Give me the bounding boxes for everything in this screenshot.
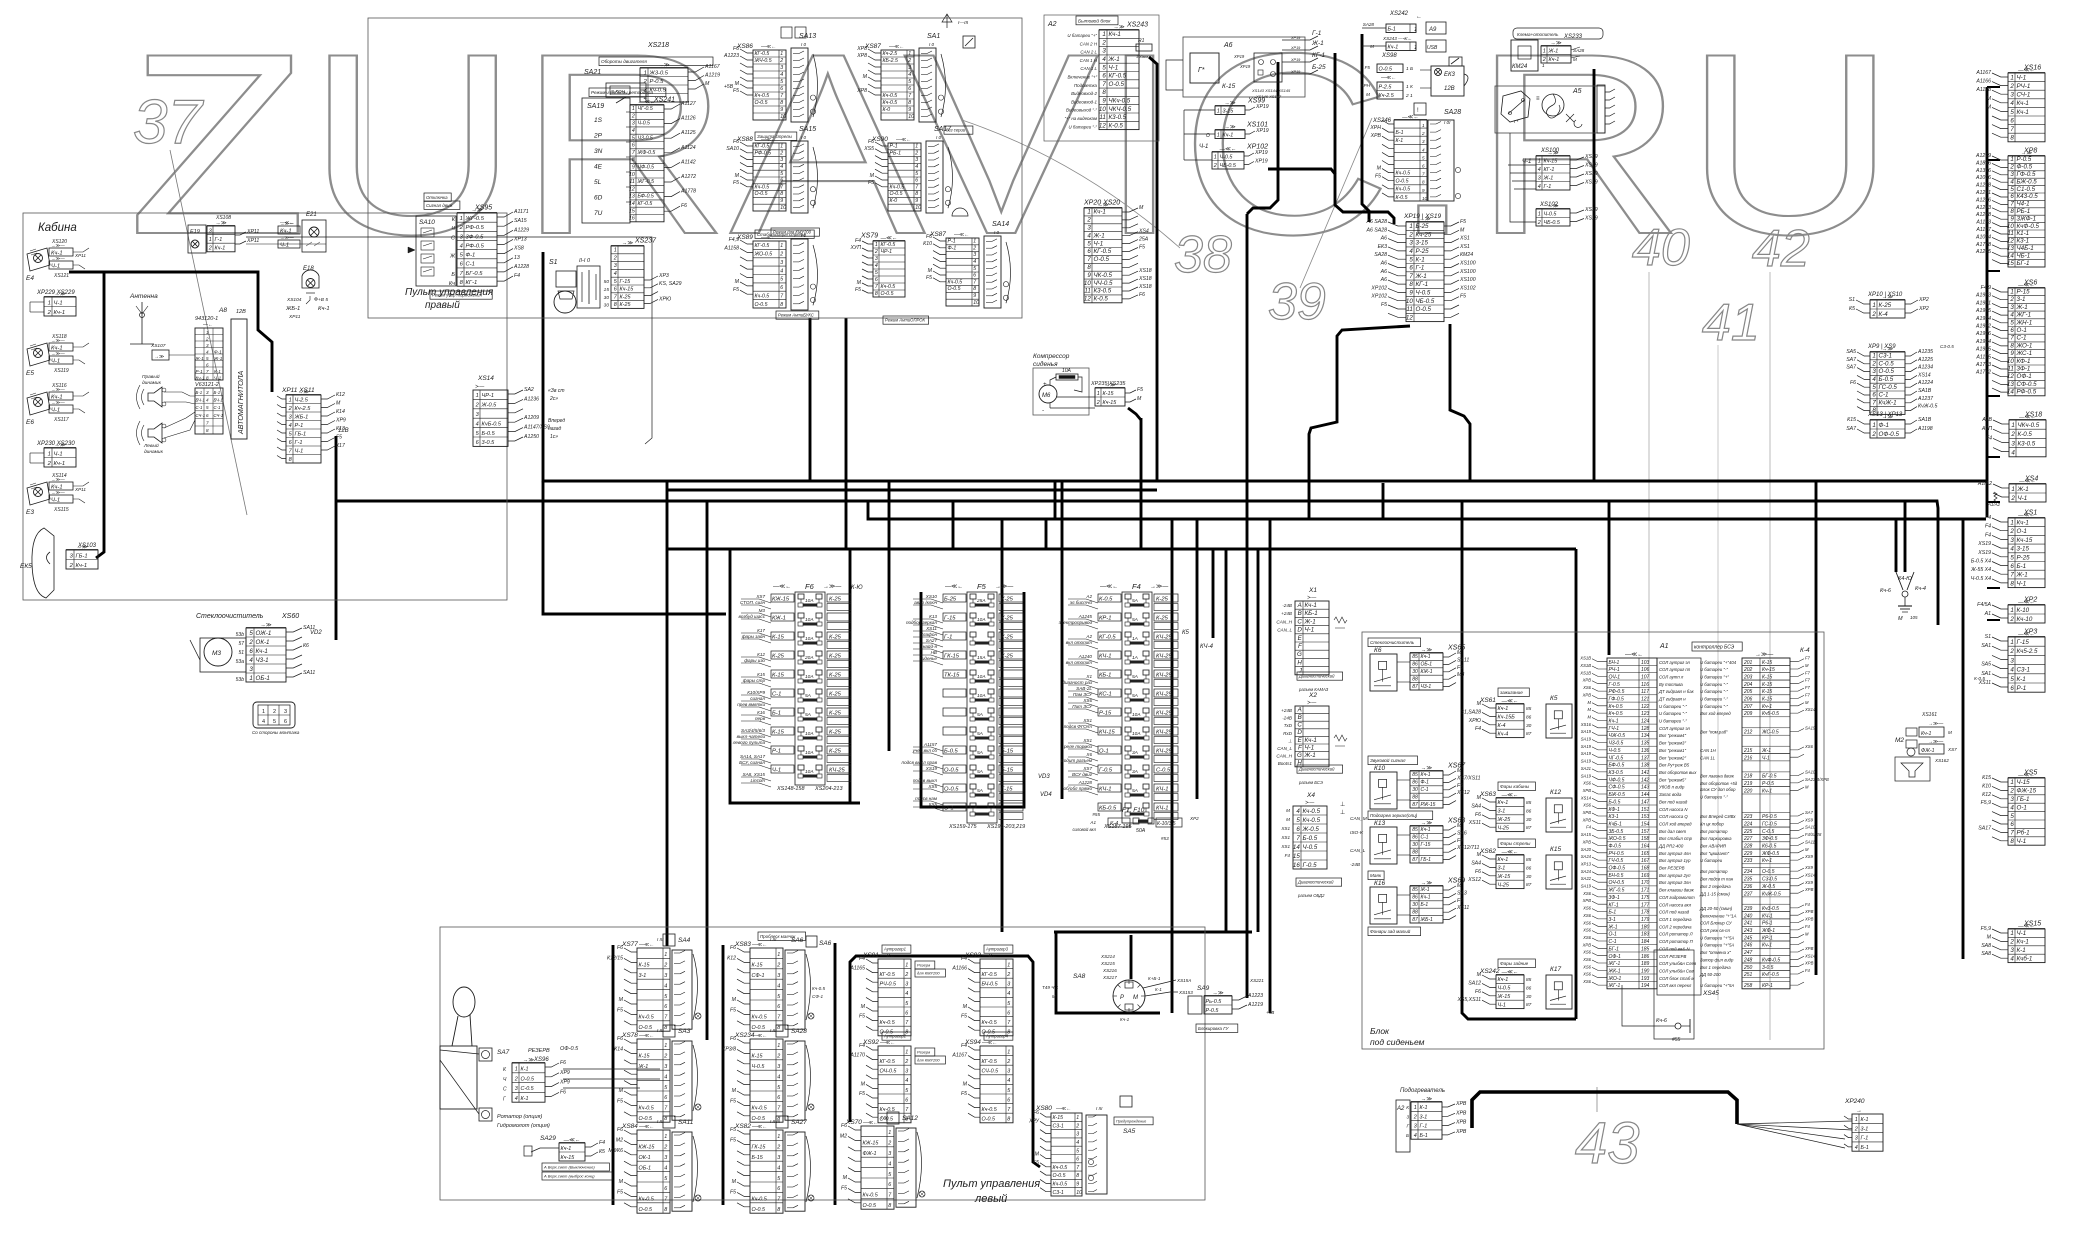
- svg-text:XS77: XS77: [621, 941, 638, 948]
- svg-text:CAN_H: CAN_H: [1276, 754, 1292, 759]
- svg-text:3: 3: [2010, 171, 2014, 178]
- svg-text:ХS19: ХS19: [1584, 180, 1598, 186]
- svg-text:правый: правый: [425, 300, 460, 311]
- svg-text:→≫—: →≫—: [995, 584, 1013, 590]
- svg-text:А1157: А1157: [923, 742, 937, 747]
- svg-text:9: 9: [908, 107, 911, 113]
- svg-text:КГ-1: КГ-1: [1312, 52, 1326, 59]
- svg-text:9: 9: [780, 107, 783, 113]
- svg-text:3-15: 3-15: [2017, 546, 2030, 553]
- svg-text:Кч-0.5: Кч-0.5: [1396, 187, 1411, 193]
- svg-text:F6: F6: [841, 1123, 847, 1129]
- svg-text:87: 87: [1526, 731, 1532, 737]
- svg-text:XS61: XS61: [1479, 697, 1496, 704]
- svg-text:4: 4: [2010, 955, 2014, 962]
- svg-text:ХР2: ХР2: [1918, 297, 1929, 303]
- svg-text:F4: F4: [1586, 825, 1592, 830]
- svg-text:Кч-0.5: Кч-0.5: [752, 1106, 768, 1112]
- svg-text:Кч-1: Кч-1: [1109, 31, 1121, 38]
- svg-text:XS243 —≪←: XS243 —≪←: [1382, 36, 1412, 41]
- svg-text:Вкл 2 передача: Вкл 2 передача: [1700, 884, 1731, 889]
- svg-text:авар /ключ: авар /ключ: [914, 600, 938, 605]
- svg-text:КГ-0.5: КГ-0.5: [755, 243, 770, 249]
- svg-text:30: 30: [604, 303, 610, 309]
- svg-text:КГ-0.5: КГ-0.5: [1094, 248, 1112, 255]
- svg-text:3: 3: [888, 1151, 891, 1157]
- svg-text:Кч-1: Кч-1: [2017, 520, 2029, 527]
- svg-text:Ч-25: Ч-25: [1498, 882, 1510, 888]
- svg-text:2: 2: [1537, 220, 1541, 226]
- svg-text:Кч-0.5: Кч-0.5: [812, 986, 825, 991]
- svg-text:Кч-1: Кч-1: [2017, 939, 2029, 946]
- svg-text:К12: К12: [1550, 789, 1561, 796]
- svg-text:К10: К10: [1982, 783, 1991, 789]
- svg-text:XS19: XS19: [1977, 541, 1991, 547]
- svg-text:ЖО-1: ЖО-1: [1608, 976, 1622, 982]
- svg-text:178: 178: [1641, 910, 1650, 916]
- svg-text:ЖС-0.5: ЖС-0.5: [1761, 730, 1779, 736]
- svg-text:3-0.5: 3-0.5: [482, 440, 496, 446]
- svg-text:7: 7: [1087, 256, 1091, 263]
- svg-text:8: 8: [206, 428, 209, 433]
- svg-text:ЧФ-0.5: ЧФ-0.5: [638, 165, 655, 171]
- svg-text:Аутригер4: Аутригер4: [985, 1034, 1009, 1039]
- svg-text:О-1: О-1: [2017, 327, 2027, 334]
- svg-text:А6: А6: [1380, 261, 1387, 267]
- svg-text:XS104: XS104: [286, 297, 302, 303]
- svg-text:3: 3: [2010, 947, 2014, 954]
- svg-text:F6: F6: [733, 46, 739, 52]
- svg-text:С: С: [451, 235, 455, 241]
- svg-text:11: 11: [1406, 306, 1412, 313]
- svg-text:147: 147: [1641, 799, 1650, 805]
- svg-text:1: 1: [1542, 63, 1545, 68]
- svg-text:Кч-0.5: Кч-0.5: [880, 1107, 896, 1113]
- svg-text:F5: F5: [1381, 302, 1387, 308]
- svg-text:А2: А2: [1047, 21, 1057, 28]
- svg-text:РФ-0.5: РФ-0.5: [2017, 389, 2037, 396]
- svg-text:I 0: I 0: [801, 42, 807, 47]
- svg-text:С3-1: С3-1: [1879, 353, 1892, 360]
- svg-text:А6: А6: [1380, 236, 1387, 242]
- svg-text:КГ-1: КГ-1: [466, 280, 478, 286]
- svg-text:165: 165: [1641, 851, 1650, 857]
- svg-text:Блок: Блок: [1370, 1026, 1390, 1036]
- svg-text:Ч-1: Ч-1: [1522, 159, 1531, 165]
- svg-text:6: 6: [664, 1186, 667, 1192]
- svg-text:РФ-0.5: РФ-0.5: [466, 225, 485, 231]
- svg-text:Кч-1: Кч-1: [54, 310, 66, 316]
- svg-text:202: 202: [1743, 667, 1753, 673]
- svg-text:4: 4: [289, 423, 292, 429]
- svg-text:ХS19: ХS19: [1584, 171, 1598, 177]
- svg-text:5А: 5А: [977, 788, 983, 794]
- svg-text:XS100: XS100: [1459, 269, 1476, 275]
- svg-text:F6: F6: [617, 1127, 623, 1133]
- svg-text:3: 3: [875, 256, 878, 262]
- svg-text:А1218: А1218: [1975, 183, 1991, 189]
- svg-text:9: 9: [1422, 188, 1425, 193]
- svg-text:К10: К10: [923, 241, 932, 247]
- svg-text:3: 3: [2010, 537, 2014, 544]
- svg-text:ХS5: ХS5: [863, 146, 874, 152]
- svg-text:ХS12: ХS12: [1456, 790, 1470, 796]
- svg-text:СОЛ 1 передача: СОЛ 1 передача: [1659, 917, 1692, 922]
- svg-text:3-1: 3-1: [1498, 809, 1506, 815]
- svg-text:Кч-1: Кч-1: [1762, 858, 1772, 864]
- svg-text:фары изо: фары изо: [744, 658, 765, 663]
- svg-text:Вкл РЕЗЕРВ: Вкл РЕЗЕРВ: [1659, 866, 1685, 871]
- svg-text:SA20: SA20: [1581, 847, 1592, 852]
- svg-text:F6: F6: [560, 1060, 566, 1066]
- svg-text:СОЛ аутп л: СОЛ аутп л: [1659, 675, 1684, 680]
- svg-text:М: М: [1460, 227, 1465, 233]
- svg-text:КР-1: КР-1: [1762, 935, 1773, 941]
- svg-text:10: 10: [1099, 106, 1106, 113]
- svg-text:Кч-0.5: Кч-0.5: [1609, 711, 1623, 717]
- svg-text:ХРЮ: ХРЮ: [1468, 718, 1482, 724]
- svg-text:Ч-0.5: Ч-0.5: [1609, 748, 1621, 754]
- svg-text:О-0.5: О-0.5: [1094, 256, 1110, 263]
- svg-text:4: 4: [2010, 312, 2014, 319]
- svg-text:ХS6: ХS6: [1082, 698, 1092, 703]
- svg-text:F7, F10: F7, F10: [1122, 807, 1145, 814]
- svg-text:О-0.5: О-0.5: [521, 1076, 535, 1082]
- svg-text:подсв выкл прав: подсв выкл прав: [902, 760, 938, 765]
- svg-text:Ч-1: Ч-1: [214, 376, 222, 381]
- svg-text:8: 8: [1087, 264, 1091, 271]
- svg-text:XS161: XS161: [1921, 712, 1937, 718]
- svg-text:XS196-203,219: XS196-203,219: [986, 824, 1025, 830]
- svg-text:SA7: SA7: [1846, 365, 1857, 371]
- svg-text:-: -: [1042, 408, 1044, 414]
- svg-text:1: 1: [905, 962, 908, 968]
- svg-text:"+" на видеокам: "+" на видеокам: [1064, 116, 1097, 121]
- svg-text:К-15: К-15: [1103, 391, 1115, 397]
- svg-text:F5: F5: [1460, 294, 1466, 300]
- svg-text:Фары задние: Фары задние: [1500, 961, 1529, 966]
- svg-text:88: 88: [1412, 909, 1418, 915]
- svg-text:16: 16: [1293, 862, 1300, 869]
- svg-text:ХРУ: ХРУ: [1028, 1118, 1040, 1124]
- svg-text:ХРВ: ХРВ: [1582, 810, 1592, 815]
- svg-text:К13: К13: [929, 614, 937, 619]
- svg-text:Вкл "режим3": Вкл "режим3": [1659, 741, 1686, 746]
- svg-text:216: 216: [1743, 755, 1753, 761]
- svg-text:Р-1: Р-1: [2017, 685, 2027, 692]
- svg-text:К-0.5: К-0.5: [2018, 431, 2033, 438]
- svg-text:Аутригер3: Аутригер3: [985, 947, 1009, 952]
- svg-text:Вкл аутриг 4лн: Вкл аутриг 4лн: [1659, 851, 1691, 856]
- svg-text:XS5: XS5: [927, 784, 937, 789]
- svg-text:ХS1В: ХS1В: [1579, 656, 1591, 661]
- svg-text:1: 1: [1217, 108, 1220, 114]
- svg-text:М: М: [732, 997, 737, 1003]
- svg-text:К5: К5: [599, 1149, 605, 1155]
- svg-text:86: 86: [1412, 662, 1418, 668]
- svg-text:2: 2: [1871, 431, 1876, 438]
- svg-text:CAN 1L: CAN 1L: [1700, 755, 1716, 760]
- svg-text:154: 154: [1641, 822, 1650, 828]
- svg-text:КБ-1: КБ-1: [1305, 610, 1318, 617]
- svg-text:XS83: XS83: [734, 941, 751, 948]
- svg-text:КЧ-15: КЧ-15: [1099, 730, 1115, 736]
- svg-text:ХР102: ХР102: [1370, 285, 1387, 291]
- svg-text:А1128: А1128: [1975, 87, 1991, 93]
- svg-text:ХS215: ХS215: [1100, 961, 1115, 966]
- svg-text:РЧ-0.5: РЧ-0.5: [880, 982, 898, 988]
- svg-text:F4: F4: [859, 956, 865, 962]
- svg-text:левый: левый: [974, 1193, 1007, 1205]
- svg-text:F7: F7: [1805, 670, 1811, 675]
- svg-text:E4: E4: [26, 275, 34, 282]
- svg-text:171: 171: [1641, 888, 1650, 894]
- svg-text:Гидромолот (опция): Гидромолот (опция): [497, 1123, 550, 1129]
- svg-text:ОФ-1: ОФ-1: [2017, 373, 2032, 380]
- svg-text:КЧ-25: КЧ-25: [1156, 635, 1172, 641]
- svg-text:2: 2: [2009, 83, 2014, 90]
- svg-text:М: М: [1377, 166, 1382, 172]
- svg-text:3: 3: [1007, 982, 1010, 988]
- svg-text:А9: А9: [1428, 27, 1437, 33]
- svg-text:Ч3-1: Ч3-1: [1421, 684, 1432, 690]
- svg-text:Ф-1: Ф-1: [214, 350, 222, 355]
- svg-text:Ч-1: Ч-1: [2017, 930, 2027, 937]
- svg-text:87: 87: [1412, 802, 1418, 808]
- svg-text:XS143 XS144 XS145: XS143 XS144 XS145: [1251, 88, 1291, 93]
- svg-text:157: 157: [1641, 829, 1650, 835]
- svg-text:5: 5: [973, 266, 976, 272]
- svg-text:М6: М6: [1042, 393, 1051, 399]
- svg-text:F5: F5: [730, 1007, 736, 1013]
- svg-text:О-0.5: О-0.5: [982, 1117, 996, 1123]
- svg-text:Ч-0.5: Ч-0.5: [1416, 290, 1431, 297]
- svg-text:4: 4: [2010, 804, 2014, 811]
- svg-text:КЖ-15: КЖ-15: [863, 1141, 880, 1147]
- svg-text:ХS153: ХS153: [1178, 990, 1193, 995]
- svg-text:1: 1: [1007, 1049, 1010, 1055]
- svg-text:СОЛ 2 передача: СОЛ 2 передача: [1659, 924, 1692, 929]
- svg-text:КчЖ-0.5: КчЖ-0.5: [1762, 891, 1781, 897]
- svg-text:А1985: А1985: [1975, 308, 1991, 314]
- svg-text:10А: 10А: [805, 750, 814, 756]
- svg-text:Вкл аутриг 1ур: Вкл аутриг 1ур: [1659, 858, 1691, 863]
- svg-text:Ч-1: Ч-1: [1762, 755, 1770, 761]
- svg-text:Вкл ход вперед: Вкл ход вперед: [1700, 711, 1731, 716]
- svg-text:6: 6: [284, 719, 287, 725]
- svg-text:2: 2: [2009, 616, 2014, 623]
- svg-text:Б-0.5: Б-0.5: [482, 431, 496, 437]
- svg-text:сиденье: сиденье: [920, 656, 938, 661]
- svg-text:К-0.5: К-0.5: [1094, 296, 1109, 303]
- svg-text:С3-0.5: С3-0.5: [1940, 344, 1954, 349]
- svg-text:F5: F5: [855, 287, 861, 293]
- svg-text:Ж-1: Ж-1: [2016, 572, 2028, 579]
- svg-text:8: 8: [1409, 281, 1413, 288]
- svg-text:F6: F6: [1457, 665, 1463, 671]
- svg-text:Е21: Е21: [306, 212, 317, 218]
- svg-text:ХS6: ХS6: [1582, 979, 1592, 984]
- svg-text:F5: F5: [733, 287, 739, 293]
- svg-text:XS119: XS119: [53, 368, 69, 374]
- svg-text:Х2: Х2: [1308, 692, 1317, 699]
- svg-text:КЧ-25: КЧ-25: [1156, 749, 1172, 755]
- svg-text:4: 4: [1414, 1133, 1417, 1139]
- svg-text:БЧ-1: БЧ-1: [196, 398, 206, 403]
- svg-text:1: 1: [2010, 520, 2013, 527]
- svg-text:183: 183: [1641, 932, 1650, 938]
- svg-text:10А: 10А: [805, 617, 814, 623]
- svg-text:А1228: А1228: [513, 264, 529, 270]
- svg-text:XS148-158: XS148-158: [776, 786, 805, 792]
- svg-text:2: 2: [2009, 648, 2014, 655]
- svg-text:ХРВ: ХРВ: [1455, 1101, 1467, 1107]
- svg-text:КчГ-0.5: КчГ-0.5: [1762, 972, 1779, 978]
- svg-text:М: М: [1133, 995, 1138, 1001]
- svg-text:→≫—: →≫—: [1928, 721, 1943, 727]
- svg-text:1: 1: [664, 952, 667, 958]
- svg-text:C: C: [1297, 618, 1302, 625]
- svg-text:С3-1: С3-1: [2017, 667, 2030, 674]
- svg-text:SA9: SA9: [1197, 985, 1210, 992]
- svg-text:А1198: А1198: [1917, 426, 1933, 432]
- svg-text:Ч-1: Ч-1: [280, 243, 289, 249]
- svg-text:Фары кабины: Фары кабины: [1500, 784, 1530, 789]
- svg-text:1: 1: [1414, 27, 1417, 33]
- svg-text:39: 39: [1268, 273, 1326, 331]
- svg-text:170: 170: [1641, 880, 1650, 886]
- svg-text:138: 138: [1641, 763, 1650, 769]
- svg-text:А1229: А1229: [513, 227, 529, 233]
- svg-text:≻—: ≻—: [1305, 800, 1314, 806]
- svg-text:ХР11: ХР11: [246, 238, 259, 244]
- svg-text:3: 3: [1102, 48, 1106, 55]
- svg-text:I 0: I 0: [929, 42, 935, 47]
- svg-text:F4: F4: [514, 273, 520, 279]
- svg-text:К-4: К-4: [1879, 311, 1889, 318]
- svg-text:4: 4: [780, 268, 783, 274]
- svg-text:CAN_L: CAN_L: [1350, 848, 1366, 854]
- svg-text:1: 1: [2010, 289, 2013, 296]
- svg-text:XP11: XP11: [74, 487, 86, 492]
- svg-text:ХРЮ: ХРЮ: [658, 296, 672, 302]
- svg-text:ХS19: ХS19: [1584, 216, 1598, 222]
- svg-text:XS63: XS63: [1479, 791, 1496, 798]
- svg-text:F4: F4: [961, 956, 967, 962]
- svg-text:194: 194: [1641, 983, 1650, 989]
- svg-text:SA27: SA27: [791, 1119, 807, 1126]
- svg-text:8: 8: [915, 191, 918, 197]
- svg-text:—≪←: —≪←: [639, 1033, 654, 1039]
- svg-text:1: 1: [1538, 211, 1541, 217]
- svg-text:К-4: К-4: [1498, 723, 1506, 729]
- svg-text:4: 4: [777, 1165, 780, 1171]
- svg-text:43: 43: [1575, 1111, 1640, 1176]
- svg-text:87: 87: [1526, 825, 1532, 831]
- svg-text:К-1: К-1: [521, 1067, 529, 1073]
- svg-text:А1945: А1945: [1975, 347, 1991, 353]
- svg-text:4: 4: [262, 719, 265, 725]
- svg-text:2: 2: [2009, 296, 2014, 303]
- svg-text:К-15: К-15: [1762, 682, 1772, 688]
- svg-text:2: 2: [972, 245, 976, 251]
- svg-text:B: B: [1298, 610, 1302, 617]
- svg-text:КГ-1: КГ-1: [1609, 902, 1619, 908]
- svg-text:Ч-1: Ч-1: [2017, 580, 2027, 587]
- svg-text:СФ-0.5: СФ-0.5: [1609, 785, 1625, 791]
- svg-text:KS, SA29: KS, SA29: [659, 281, 682, 287]
- svg-text:ДД 20-50 (смин): ДД 20-50 (смин): [1699, 906, 1733, 911]
- svg-text:8: 8: [2010, 342, 2014, 349]
- svg-text:7: 7: [1296, 835, 1300, 842]
- svg-text:ХS1: ХS1: [1280, 826, 1290, 831]
- svg-text:ГК-15: ГК-15: [944, 654, 960, 660]
- svg-text:2: 2: [1096, 400, 1100, 406]
- svg-text:248: 248: [1743, 957, 1753, 963]
- svg-text:К-15: К-15: [772, 673, 785, 679]
- svg-text:85: 85: [1526, 800, 1532, 806]
- svg-text:К10/ХР9: К10/ХР9: [747, 690, 765, 695]
- svg-text:1: 1: [48, 451, 51, 457]
- svg-text:ХРВ: ХРВ: [1582, 839, 1592, 844]
- svg-text:1: 1: [905, 1049, 908, 1055]
- svg-text:М: М: [1805, 700, 1809, 705]
- svg-text:К-1: К-1: [1416, 256, 1425, 263]
- svg-text:А1223: А1223: [723, 53, 739, 59]
- svg-text:ЖГ-1: ЖГ-1: [1608, 961, 1621, 967]
- svg-text:4: 4: [614, 271, 617, 277]
- svg-text:I III: I III: [770, 1028, 777, 1033]
- svg-text:1: 1: [460, 216, 463, 222]
- svg-text:Отключка: Отключка: [426, 195, 448, 200]
- svg-text:85: 85: [1412, 654, 1418, 660]
- svg-text:Ч-0.5: Ч-0.5: [752, 1064, 766, 1070]
- svg-text:XS246: XS246: [1372, 118, 1392, 124]
- svg-text:Ч-2.5: Ч-2.5: [295, 397, 309, 403]
- svg-text:F5: F5: [730, 1098, 736, 1104]
- svg-text:8: 8: [1422, 180, 1425, 185]
- svg-text:Ф-1: Ф-1: [1421, 780, 1430, 786]
- svg-text:К-15: К-15: [752, 1054, 764, 1060]
- svg-text:ХS214: ХS214: [1100, 954, 1115, 959]
- svg-text:S1: S1: [549, 259, 558, 266]
- svg-text:Ч-15: Ч-15: [2017, 779, 2031, 786]
- svg-text:РЧ-1: РЧ-1: [2017, 83, 2031, 90]
- svg-text:М: М: [963, 1004, 968, 1010]
- svg-text:88: 88: [1412, 794, 1418, 800]
- svg-text:5: 5: [2010, 676, 2014, 683]
- svg-text:30: 30: [1526, 994, 1532, 1000]
- svg-text:А1170: А1170: [849, 1053, 865, 1059]
- svg-text:ХР8: ХР8: [856, 53, 867, 59]
- svg-text:I III: I III: [657, 1119, 664, 1124]
- svg-text:О-0.5: О-0.5: [944, 768, 959, 774]
- svg-text:100мм: 100мм: [1136, 54, 1148, 59]
- svg-text:6: 6: [664, 1095, 667, 1101]
- svg-text:РЖ-15: РЖ-15: [1421, 802, 1436, 808]
- svg-text:→≫—: →≫—: [51, 490, 65, 495]
- svg-text:О-0.5: О-0.5: [1762, 869, 1775, 875]
- svg-text:6: 6: [2010, 563, 2014, 570]
- svg-text:К-Ю: К-Ю: [851, 585, 863, 591]
- svg-text:184: 184: [1641, 939, 1650, 945]
- svg-text:CAN 1 L: CAN 1 L: [1080, 66, 1097, 71]
- svg-text:Рь-0.5: Рь-0.5: [1206, 999, 1223, 1005]
- svg-text:105: 105: [1910, 615, 1918, 620]
- svg-text:F5: F5: [841, 1185, 847, 1191]
- svg-text:SA10: SA10: [1805, 770, 1816, 775]
- svg-text:3: 3: [209, 228, 212, 234]
